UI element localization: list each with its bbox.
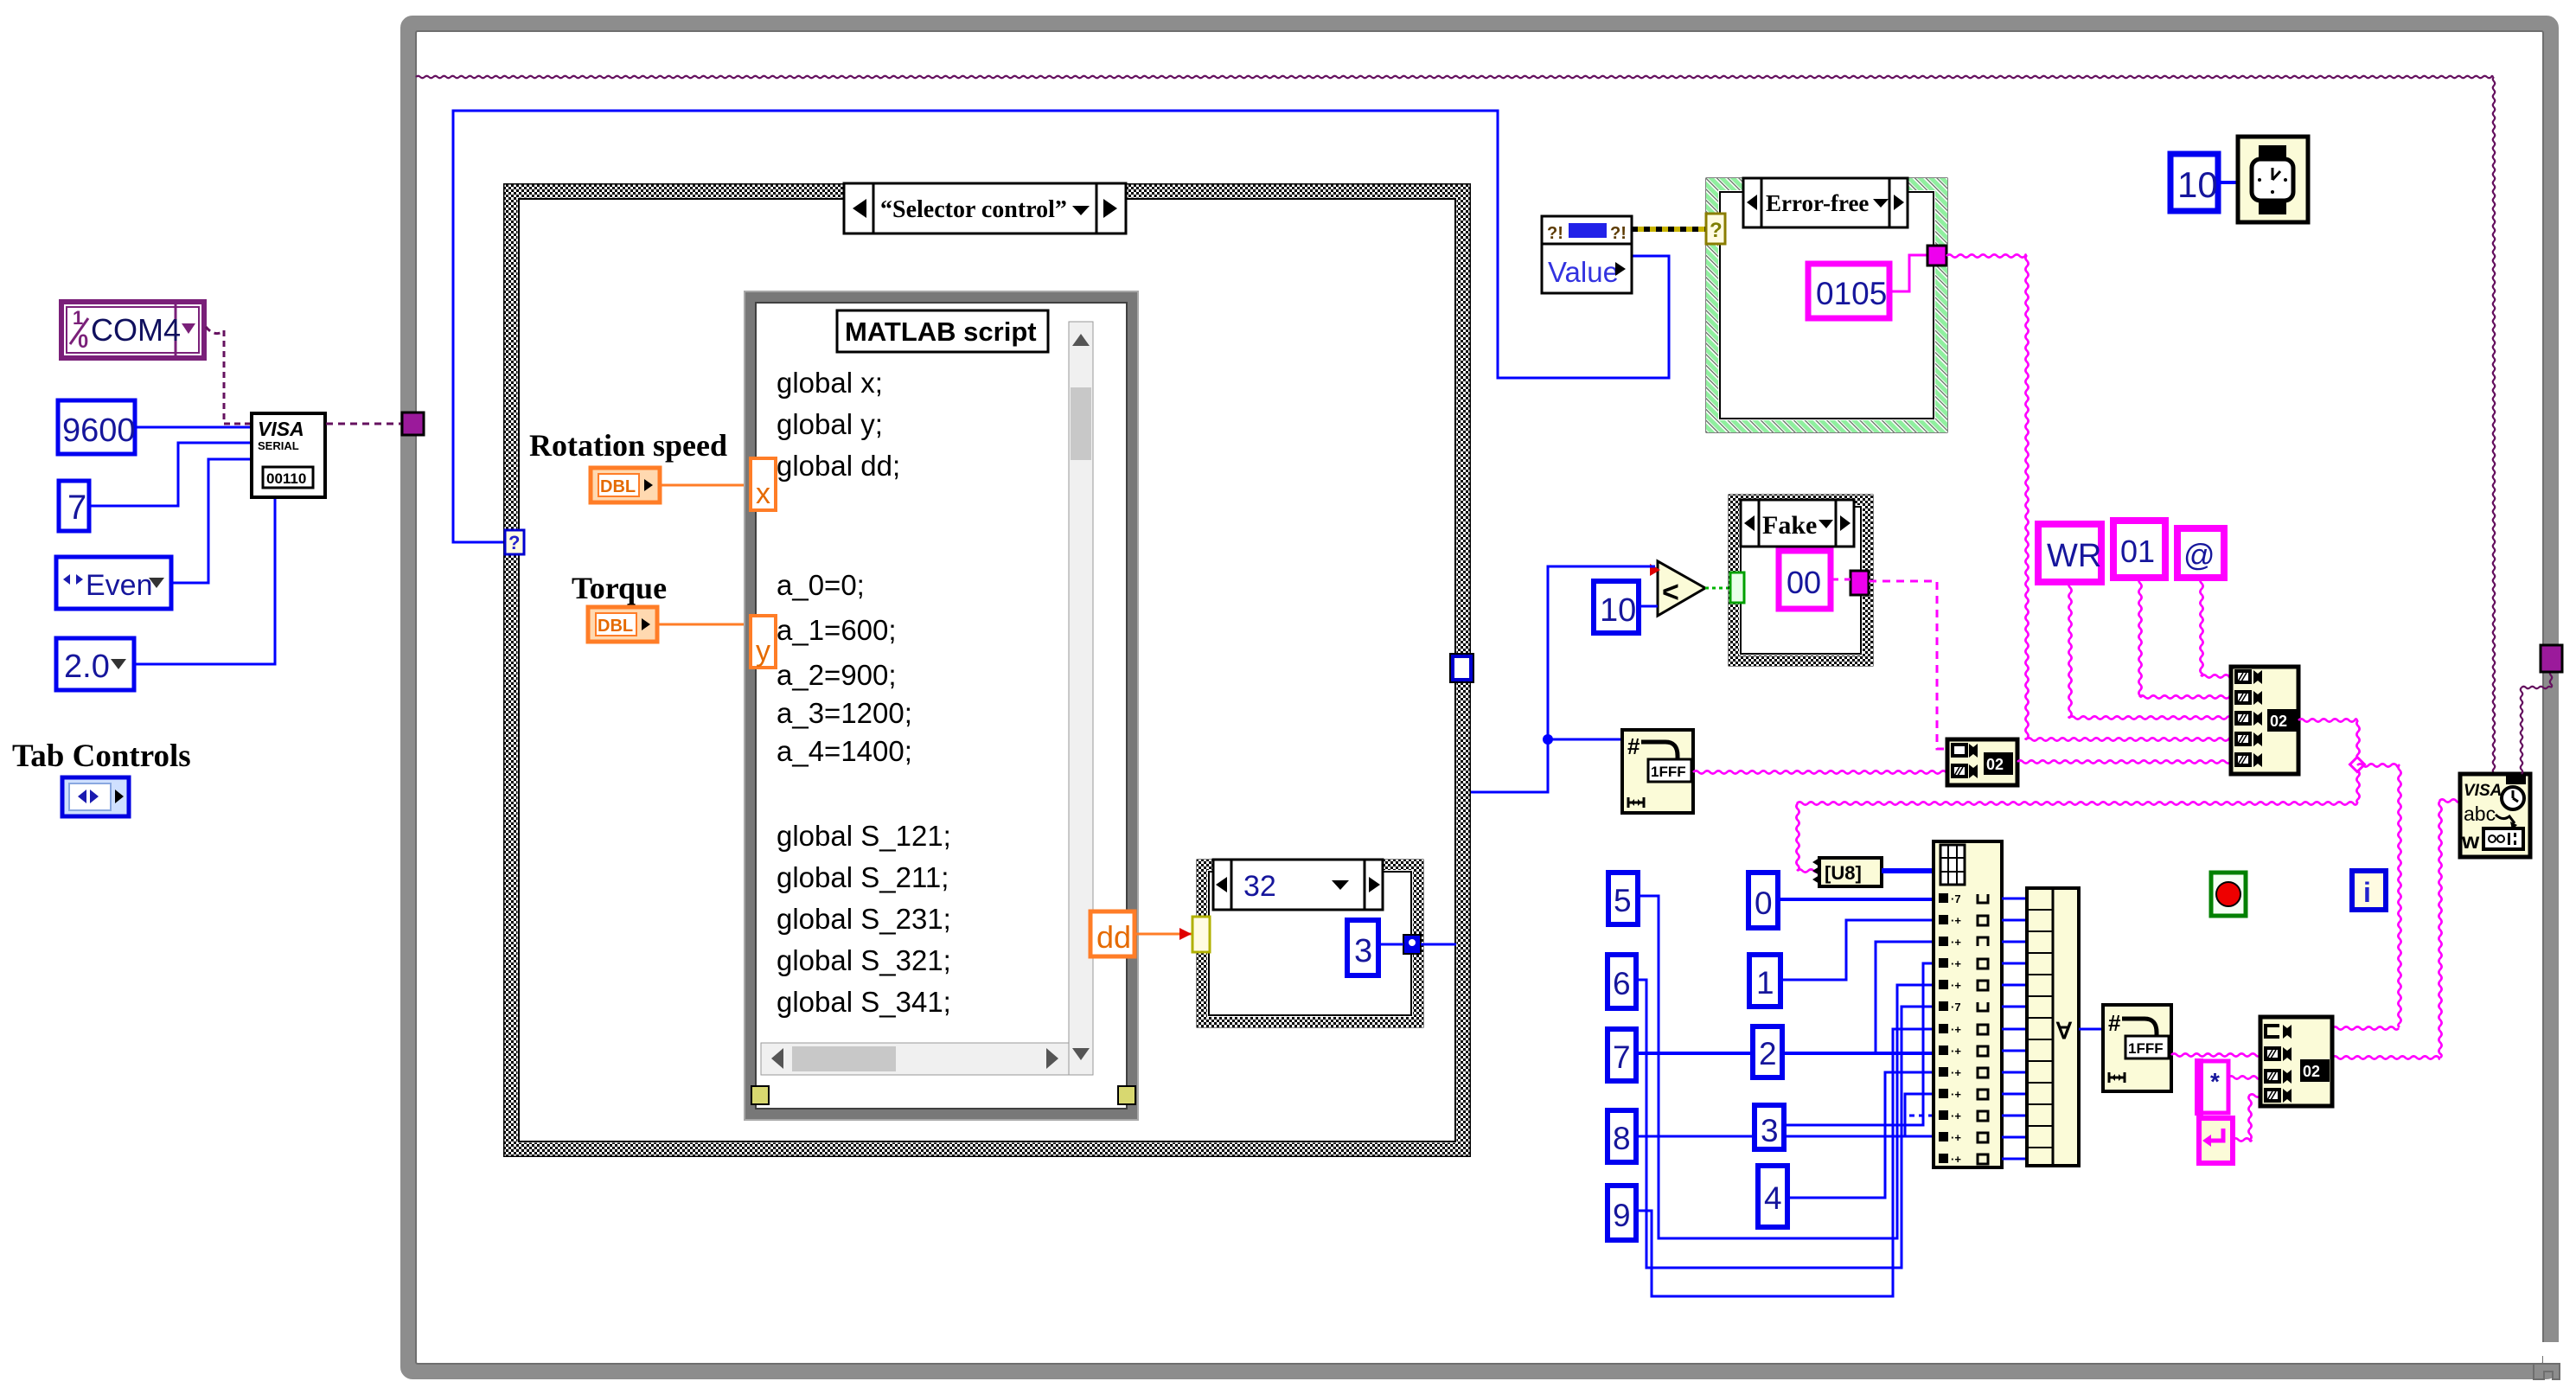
- constant 9: [1608, 1186, 1636, 1240]
- wire dd to 32 case (orange): [1135, 933, 1192, 936]
- svg-text:SERIAL: SERIAL: [258, 439, 299, 452]
- purple wire VISA write to right tunnel: [2521, 687, 2522, 774]
- 10 constant (wait): [2170, 154, 2218, 211]
- pink wire 1FFF1 to join1 row2: [1693, 771, 1947, 773]
- svg-text:02: 02: [2270, 713, 2287, 730]
- stop button: [2211, 873, 2246, 916]
- svg-text:a_3=1200;: a_3=1200;: [777, 697, 912, 729]
- 7 numeric constant: [59, 481, 89, 531]
- while loop iteration arrow corner notch: [2534, 1342, 2565, 1379]
- svg-text:9600: 9600: [62, 412, 136, 449]
- wire COM4 to VISA serial (purple dashed): [206, 327, 252, 424]
- svg-text:Even: Even: [86, 569, 153, 602]
- svg-text:?: ?: [508, 532, 520, 553]
- green wire comparator to Fake selector: [1705, 587, 1730, 590]
- Value property node: [1542, 216, 1632, 293]
- svg-text:0: 0: [1755, 886, 1773, 921]
- svg-text:3: 3: [1761, 1113, 1779, 1148]
- VISA serial configure icon: [252, 413, 325, 497]
- svg-text:global x;: global x;: [777, 367, 883, 399]
- MATLAB script label: [837, 310, 1048, 352]
- svg-text:y: y: [756, 635, 770, 668]
- wires splitter to builder rows: [2002, 898, 2027, 1159]
- 2.0 ring constant: [56, 638, 134, 690]
- svg-text:?!: ?!: [1610, 224, 1627, 243]
- 01 string constant: [2113, 521, 2165, 578]
- Selector control case label: [844, 183, 1126, 233]
- 0105 string constant: [1808, 264, 1889, 318]
- svg-text:WR: WR: [2047, 538, 2101, 574]
- svg-text:·+: ·+: [1951, 936, 1961, 949]
- wire branch to row3: [1876, 942, 1934, 1053]
- WR string constant: [2038, 524, 2101, 582]
- wire 5 to converter row5: [1638, 896, 1934, 1238]
- vertical scrollbar: [1069, 322, 1093, 1075]
- wire 4 to converter row9: [1787, 1072, 1934, 1198]
- svg-text:00110: 00110: [266, 470, 306, 487]
- svg-text:a_2=900;: a_2=900;: [777, 659, 897, 691]
- svg-text:9: 9: [1613, 1198, 1631, 1233]
- pink wire 5join output to string-to-bytes: [2298, 719, 2357, 721]
- 3 constant: [1347, 920, 1378, 975]
- Error-free case label: [1743, 178, 1908, 227]
- VISA write icon: [2460, 774, 2530, 857]
- svg-text:VISA: VISA: [258, 418, 304, 440]
- selector ? tunnel on left border: [505, 530, 524, 554]
- dd output terminal: [1090, 911, 1135, 956]
- string to byte array block: [1812, 858, 1882, 886]
- svg-text:Fake: Fake: [1762, 511, 1817, 540]
- pink dashed wire 00 to join1: [1831, 579, 1947, 749]
- svg-text:6: 6: [1613, 966, 1631, 1001]
- svg-text:1FFF: 1FFF: [1651, 764, 1686, 780]
- magenta tunnel on Fake right border: [1851, 571, 1869, 595]
- svg-text:global S_121;: global S_121;: [777, 820, 951, 852]
- constant 2: [1753, 1026, 1782, 1077]
- svg-text:·+: ·+: [1951, 1109, 1961, 1122]
- svg-text:VISA: VISA: [2464, 782, 2502, 800]
- Error-free case structure: [1707, 179, 1946, 432]
- wire 3 to converter row4: [1784, 963, 1934, 1125]
- 9600 numeric constant: [58, 400, 136, 454]
- purple tunnel on loop right border: [2541, 645, 2562, 672]
- pink wire 1FFF2 to 4join row2: [2171, 1053, 2260, 1056]
- script text: [777, 367, 951, 1018]
- pink wire join1 to 5join row5: [2017, 760, 2231, 763]
- tall cell column block: [2027, 888, 2079, 1166]
- svg-text:02: 02: [1986, 756, 2004, 773]
- pink wire @ to 5join: [2200, 578, 2202, 676]
- asterisk string constant: [2195, 1058, 2228, 1116]
- svg-text:2.0: 2.0: [64, 649, 110, 685]
- constant 6: [1608, 955, 1636, 1008]
- svg-text:<: <: [1662, 576, 1679, 609]
- svg-text:w: w: [2461, 828, 2480, 854]
- hollow tunnel on right border (upper): [1450, 654, 1473, 682]
- svg-text:global S_321;: global S_321;: [777, 944, 951, 976]
- svg-text:3: 3: [1354, 933, 1372, 969]
- svg-text:10: 10: [2177, 164, 2218, 205]
- wire tallblock to 1FFF2: [2079, 1028, 2103, 1031]
- svg-text:5: 5: [1614, 883, 1632, 918]
- svg-text:Torque: Torque: [572, 571, 667, 605]
- wire 3 to tunnel to selector border: [1378, 943, 1403, 946]
- svg-text:*: *: [2210, 1068, 2220, 1095]
- svg-text:·+: ·+: [1951, 1066, 1961, 1079]
- svg-text:0: 0: [78, 330, 88, 352]
- y input terminal: [751, 616, 776, 668]
- iteration terminal i: [2352, 871, 2386, 910]
- magenta tunnel on Error-free right border: [1927, 246, 1946, 265]
- svg-text:·+: ·+: [1951, 957, 1961, 970]
- svg-text:01: 01: [2120, 534, 2155, 569]
- pink wire * to 4join row3: [2228, 1076, 2260, 1078]
- wire DBL to x terminal (orange): [660, 484, 752, 487]
- wire 0 to converter row1: [1778, 898, 1934, 901]
- wire 8/3 to converter row12: [1636, 1135, 1934, 1138]
- horizontal scrollbar: [761, 1043, 1069, 1075]
- 10 constant (compare): [1594, 581, 1639, 633]
- svg-text:global S_211;: global S_211;: [777, 861, 949, 893]
- svg-text:·+: ·+: [1951, 1023, 1961, 1036]
- svg-text:global dd;: global dd;: [777, 450, 900, 482]
- COM4 VISA resource constant: [61, 302, 204, 358]
- svg-text:MATLAB script: MATLAB script: [845, 317, 1037, 347]
- stub row11 dashed: [1909, 1115, 1934, 1117]
- svg-text:·+: ·+: [1951, 914, 1961, 927]
- error ? selector tunnel: [1706, 214, 1725, 244]
- svg-text:DBL: DBL: [598, 617, 633, 636]
- svg-text:abc: abc: [2464, 803, 2496, 825]
- svg-text:[U8]: [U8]: [1825, 862, 1862, 884]
- stub row10: [1905, 1094, 1934, 1136]
- svg-text:·+: ·+: [1951, 1045, 1961, 1058]
- pink wire Error-free tunnel to 5-join row4: [1946, 254, 2026, 257]
- svg-text:DBL: DBL: [600, 477, 636, 496]
- wire 10 to wait: [2218, 181, 2239, 184]
- Fake case label: [1741, 500, 1854, 547]
- wire 9600 to VISA serial: [135, 426, 252, 429]
- wait (ms) timer icon: [2238, 137, 2308, 222]
- svg-text:00: 00: [1787, 565, 1821, 600]
- svg-text:∀: ∀: [2055, 1018, 2073, 1044]
- svg-text:·+: ·+: [1951, 979, 1961, 992]
- Tab control terminal: [62, 777, 129, 816]
- svg-text:#: #: [2108, 1010, 2121, 1036]
- dd input tunnel on 32 case: [1192, 917, 1210, 952]
- wire 7 to VISA serial: [89, 443, 252, 506]
- constant 7: [1608, 1029, 1636, 1081]
- Selector control case structure border: [504, 184, 1470, 1156]
- svg-text:dd: dd: [1096, 919, 1131, 955]
- wire 1 to converter row2: [1780, 920, 1934, 980]
- constant 3: [1755, 1105, 1784, 1149]
- svg-text:#: #: [1627, 733, 1640, 759]
- byte splitter block: [1934, 841, 2002, 1167]
- svg-text:COM4: COM4: [91, 312, 181, 348]
- svg-text:global S_341;: global S_341;: [777, 986, 951, 1018]
- scale by 1FFF block 2: [2103, 1005, 2171, 1091]
- svg-text:?!: ?!: [1547, 224, 1563, 243]
- svg-text:Value: Value: [1548, 256, 1619, 288]
- wire 6 to converter row6: [1636, 980, 1934, 1268]
- blue wire from Value node loop (top long wire): [453, 111, 1669, 542]
- pink branch to 4join top: [2357, 764, 2399, 766]
- svg-text:·+: ·+: [1951, 1131, 1961, 1144]
- Rotation speed DBL terminal: [591, 468, 660, 502]
- Fake case structure: [1729, 496, 1872, 665]
- pink wire return to 4join row4: [2233, 1138, 2252, 1141]
- purple VISA wire across top of loop: [416, 76, 2493, 78]
- blue tunnel on 32 case right border: [1403, 935, 1421, 954]
- svg-text:·+: ·+: [1951, 1088, 1961, 1101]
- svg-text:02: 02: [2303, 1063, 2320, 1080]
- svg-text:a_0=0;: a_0=0;: [777, 569, 865, 601]
- svg-text:@: @: [2183, 537, 2215, 572]
- svg-text:2: 2: [1759, 1036, 1777, 1071]
- 5-input join block: [2231, 667, 2298, 774]
- wire VISA serial to loop tunnel (purple dashed): [326, 423, 403, 425]
- svg-text:“Selector control”: “Selector control”: [880, 196, 1067, 223]
- svg-text:·7: ·7: [1951, 892, 1961, 905]
- svg-text:·7: ·7: [1951, 1001, 1961, 1014]
- svg-text:32: 32: [1243, 870, 1276, 903]
- Torque DBL terminal: [588, 607, 657, 642]
- wire Even to VISA serial: [171, 459, 252, 583]
- @ string constant: [2177, 528, 2224, 578]
- constant 4: [1758, 1166, 1787, 1227]
- svg-text:1: 1: [1756, 965, 1774, 1001]
- script node corner tag left: [751, 1086, 769, 1104]
- svg-text:?: ?: [1710, 219, 1723, 242]
- svg-text:Tab Controls: Tab Controls: [12, 739, 191, 774]
- constant 1: [1749, 955, 1780, 1007]
- 32 case structure: [1198, 860, 1422, 1026]
- svg-text:global S_231;: global S_231;: [777, 903, 951, 935]
- pink wire 4join output to VISA write: [2332, 1056, 2439, 1058]
- pink wire 01 to 5join: [2138, 578, 2141, 697]
- 4-input join block: [2260, 1017, 2332, 1106]
- error wire Value to Error-free case: [1632, 227, 1707, 232]
- constant 0: [1748, 873, 1778, 928]
- 32 case label: [1213, 860, 1383, 910]
- wire 10 to comparator: [1639, 605, 1658, 608]
- wire 9 to converter row7: [1636, 1029, 1934, 1296]
- scale by 1FFF block 1: [1622, 730, 1693, 813]
- svg-text:7: 7: [1613, 1039, 1631, 1075]
- svg-text:i: i: [2363, 877, 2371, 908]
- carriage return constant: [2199, 1118, 2233, 1163]
- pink wire WR to 5join: [2068, 582, 2071, 718]
- wire 7/2 to converter row8: [1636, 1052, 1934, 1055]
- thick blue wire to cluster converter: [1882, 868, 1934, 873]
- script node corner tag right: [1118, 1086, 1135, 1104]
- junction diamond: [2350, 758, 2365, 772]
- Fake selector tunnel (green): [1730, 572, 1744, 603]
- less-than comparator: [1650, 561, 1705, 616]
- Even ring constant: [56, 557, 171, 609]
- svg-text:a_1=600;: a_1=600;: [777, 614, 897, 646]
- svg-text:1FFF: 1FFF: [2128, 1040, 2164, 1057]
- constant 8: [1608, 1110, 1636, 1162]
- wire DBL to y terminal (orange): [657, 623, 752, 626]
- svg-text:Error-free: Error-free: [1766, 190, 1869, 216]
- join number block 1: [1947, 739, 2017, 785]
- svg-text:Rotation speed: Rotation speed: [529, 428, 727, 463]
- svg-text:x: x: [756, 477, 770, 510]
- wire 2.0 to VISA serial: [134, 498, 275, 664]
- svg-text:a_4=1400;: a_4=1400;: [777, 735, 912, 767]
- wire 0105 to tunnel: [1889, 255, 1927, 291]
- svg-text:8: 8: [1613, 1121, 1631, 1156]
- constant 5: [1608, 873, 1638, 924]
- blue wire from selector border to comparator and 1FFF: [1471, 566, 1655, 792]
- MATLAB script node frame: [745, 291, 1138, 1120]
- svg-text:4: 4: [1764, 1180, 1782, 1216]
- svg-text:10: 10: [1600, 592, 1636, 629]
- tunnel VISA on loop left border: [402, 412, 424, 435]
- svg-text:·+: ·+: [1951, 1153, 1961, 1166]
- svg-text:7: 7: [67, 489, 86, 527]
- svg-text:0105: 0105: [1816, 276, 1887, 311]
- 00 string constant: [1779, 551, 1831, 609]
- svg-text:global y;: global y;: [777, 408, 883, 440]
- x input terminal: [751, 458, 776, 510]
